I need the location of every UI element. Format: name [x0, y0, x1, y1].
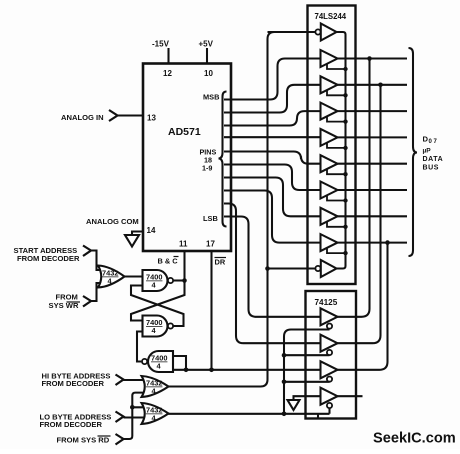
wire pin 14 to ground	[132, 232, 143, 236]
junction DR line	[209, 368, 214, 373]
pin number 14	[147, 226, 156, 235]
wire enable hook buffer 8	[327, 248, 346, 254]
wire U4a output to nand U5a	[125, 275, 143, 277]
wire LO rail to enable buffer1 74125	[284, 330, 330, 414]
label FROM SYS WR-bar	[49, 293, 81, 311]
wire data bit 2 to buffer 2	[224, 85, 321, 113]
buffer 7 of 74LS244	[321, 208, 338, 225]
input chevron HI BYTE	[116, 375, 124, 386]
svg-text:ANALOG IN: ANALOG IN	[61, 113, 104, 122]
svg-text:DATA: DATA	[423, 156, 444, 163]
wire enable hook buffer 5	[327, 169, 346, 175]
label D0-7 uP DATA BUS	[423, 135, 444, 172]
label HI BYTE ADDRESS FROM DECODER	[42, 372, 111, 389]
label FROM SYS RD-bar	[57, 436, 111, 445]
brace grouping AD571 output pins	[219, 92, 227, 227]
svg-text:AD571: AD571	[168, 126, 201, 138]
wire DR line to 74125 buffer3	[173, 369, 321, 371]
IC U3 74125 quad buffer body	[306, 291, 357, 419]
svg-text:-15V: -15V	[152, 40, 170, 49]
junction out3 bus	[385, 240, 390, 245]
wire sys WR to OR gate U4a	[91, 283, 101, 301]
wire data bit 8 to buffer 8	[224, 191, 321, 243]
buffer 8 of 74LS244	[321, 234, 338, 251]
wire data bit 5 to buffer 5	[224, 152, 321, 164]
wire bus row output buffer 4	[338, 136, 408, 138]
junction enable2 74125	[282, 353, 287, 358]
pin number 11	[179, 240, 188, 249]
junction enable hook 7	[343, 225, 347, 229]
junction out2 bus	[378, 83, 383, 88]
label B & C-bar	[158, 257, 179, 266]
junction HI-rail to 2G	[265, 266, 270, 271]
label MSB	[203, 93, 219, 102]
buffer 1 of 74125	[321, 308, 338, 325]
wire LO BYTE to U4c	[124, 416, 144, 418]
input chevron ANALOG IN	[109, 110, 118, 121]
wire data bit 4 to buffer 4	[224, 136, 321, 138]
svg-text:11: 11	[179, 240, 188, 249]
wire enable hook buffer 3	[327, 116, 346, 122]
wire 74125 out2 to bus D5	[338, 85, 381, 343]
wire enable hook buffer 2	[327, 90, 346, 96]
wire enable buffer4 74125 to LO line	[318, 408, 330, 418]
wire pin 11 B&C line	[183, 251, 185, 281]
wire enable rail from HI gate to 1G enable bubble	[268, 31, 316, 33]
junction enable3 74125	[282, 380, 287, 385]
svg-text:LSB: LSB	[203, 214, 218, 223]
wire data bit 9 to 74125 buffer 2	[224, 204, 321, 344]
svg-text:10: 10	[204, 69, 213, 78]
junction out1 bus	[367, 56, 372, 61]
label START ADDRESS FROM DECODER	[14, 246, 80, 263]
ground symbol 74125 input	[288, 400, 300, 410]
wire bus row output buffer 7	[338, 215, 408, 217]
or-gate U4b 7432 HI	[142, 376, 169, 397]
svg-text:13: 13	[147, 114, 156, 123]
junction enable hook 1	[343, 67, 347, 71]
wire enable hook buffer 6	[327, 195, 346, 201]
wire ground to input buffer4 74125	[294, 396, 321, 400]
svg-text:14: 14	[147, 226, 156, 235]
wire enable hook buffer 7	[327, 221, 346, 227]
wire bus row output buffer 6	[338, 189, 408, 191]
label PINS 18 1-9	[200, 148, 217, 173]
junction enable hook 2	[343, 93, 347, 97]
nand-gate U5a 7400 latch top	[143, 270, 174, 291]
nand-gate U5c 7400 mirrored	[142, 351, 173, 372]
svg-text:FROM DECODER: FROM DECODER	[17, 254, 80, 263]
svg-text:ANALOG COM: ANALOG COM	[86, 217, 139, 226]
svg-text:17: 17	[206, 240, 215, 249]
wire SYS RD vertical	[124, 407, 144, 439]
label ANALOG IN	[61, 113, 104, 122]
junction U5a output B&C	[182, 278, 187, 283]
wire 74125 out1 to bus D6	[338, 59, 370, 317]
junction LO rail	[282, 412, 287, 417]
wire analog in to pin 13	[118, 114, 144, 116]
buffer 3 of 74LS244	[321, 103, 338, 120]
buffer 6 of 74LS244	[321, 182, 338, 199]
svg-text:+5V: +5V	[199, 40, 214, 49]
svg-text:BUS: BUS	[423, 165, 440, 172]
brace uP data bus	[409, 48, 418, 256]
pin number 13	[147, 114, 156, 123]
svg-text:FROM SYS RD: FROM SYS RD	[57, 436, 110, 445]
input chevron SYS RD	[116, 434, 124, 445]
wire bus row output buffer 5	[338, 163, 408, 165]
label 74LS244	[315, 12, 347, 21]
junction enable hook 5	[343, 172, 347, 176]
buffer 2 of 74LS244	[321, 76, 338, 93]
wire data bit 6 to buffer 6	[224, 165, 321, 191]
wire start address to OR gate U4a	[91, 251, 101, 271]
ground symbol analog common	[125, 235, 139, 247]
svg-text:0 7: 0 7	[429, 139, 438, 145]
label LO BYTE ADDRESS FROM DECODER	[40, 413, 112, 430]
label -15V	[152, 40, 170, 49]
wire bus row output buffer 2	[338, 84, 408, 86]
svg-text:74LS244: 74LS244	[315, 12, 347, 21]
wire 74125 out3 to bus D0	[338, 243, 388, 370]
wire U5c tied inputs bracket	[173, 356, 186, 370]
svg-text:µP: µP	[423, 148, 432, 155]
pin 12 -15V supply stub	[167, 48, 169, 64]
IC U2 74LS244 octal buffer body	[308, 6, 356, 285]
wire latch cross U5a out to U5b in	[131, 281, 185, 321]
or-gate U4a 7432	[98, 266, 125, 288]
svg-text:FROM DECODER: FROM DECODER	[40, 420, 103, 429]
wire enable buffer3 74125	[284, 381, 330, 383]
buffer 1 of 74LS244	[321, 50, 338, 67]
label AD571	[168, 126, 201, 138]
buffer 5 of 74LS244	[321, 155, 338, 172]
wire data bit MSB pin18 to buffer 1	[224, 59, 321, 100]
wire data bit 3 to buffer 3	[224, 111, 321, 125]
wire bus row output buffer 1	[338, 57, 408, 59]
label ANALOG COM	[86, 217, 139, 226]
pin 10 +5V supply stub	[206, 48, 208, 64]
label LSB	[203, 214, 218, 223]
buffer 4 of 74LS244	[321, 129, 338, 146]
input chevron START ADDRESS	[83, 246, 91, 257]
wire pin 17 DR line	[210, 251, 212, 370]
watermark SeekIC.com	[373, 431, 456, 447]
wire 74LS244 internal enable rail	[337, 32, 346, 269]
enable bubble buffer 4 of 74125	[327, 403, 332, 408]
enable bubble buffer 2 of 74125	[327, 350, 332, 355]
junction enable hook 6	[343, 198, 347, 202]
wire enable hook buffer 1	[327, 64, 346, 70]
wire U5a output to B&C node	[173, 279, 184, 281]
input chevron LO BYTE	[116, 412, 124, 423]
buffer 4 of 74125	[321, 388, 338, 405]
pin number 17	[206, 240, 215, 249]
junction U5c inputs	[184, 368, 189, 373]
or-gate U4c 7432 LO	[142, 403, 169, 424]
pin number 12	[163, 69, 172, 78]
wire SYS RD to U4b input	[132, 393, 143, 408]
wire HI BYTE to U4b	[124, 379, 144, 381]
label +5V	[199, 40, 214, 49]
wire U4b output to 74LS244 enable rail	[169, 32, 316, 387]
enable gate 1G of 74LS244	[315, 24, 336, 41]
svg-text:FROM DECODER: FROM DECODER	[42, 379, 105, 388]
svg-text:B & C: B & C	[158, 257, 179, 266]
buffer 2 of 74125	[321, 335, 338, 352]
input chevron SYS WR	[83, 296, 91, 307]
junction enable hook 4	[343, 146, 347, 150]
wire data bit LSB to 74125 buffer 1	[224, 217, 321, 317]
nand-gate U5b 7400 latch bottom	[143, 316, 174, 337]
enable bubble buffer 1 of 74125	[327, 324, 332, 329]
junction SYS RD	[130, 405, 135, 410]
IC U1 AD571 A/D converter body	[143, 64, 231, 252]
wire enable hook buffer 4	[327, 142, 346, 148]
junction enable hook 3	[343, 119, 347, 123]
label 74125	[315, 298, 338, 307]
wire U4c output LO enable line	[169, 413, 330, 415]
junction enable hook 8	[343, 251, 347, 255]
svg-text:1-9: 1-9	[202, 164, 212, 173]
label DR-bar	[215, 258, 227, 267]
wire 2G enable input	[268, 267, 316, 269]
wire latch cross U5b out to U5a in	[131, 286, 184, 327]
svg-text:74125: 74125	[315, 298, 338, 307]
wire enable buffer2 74125	[284, 354, 330, 356]
svg-text:SeekIC.com: SeekIC.com	[373, 431, 456, 447]
svg-text:12: 12	[163, 69, 172, 78]
enable bubble buffer 3 of 74125	[327, 377, 332, 382]
wire bus row output buffer 3	[338, 110, 408, 112]
pin number 10	[204, 69, 213, 78]
enable gate 2G of 74LS244	[315, 260, 336, 277]
svg-text:MSB: MSB	[203, 93, 219, 102]
wire U5c output to U5b input	[137, 332, 143, 362]
svg-text:DR: DR	[215, 258, 226, 267]
buffer 3 of 74125	[321, 361, 338, 378]
wire bus row output buffer 8	[338, 242, 408, 244]
wire data bit 7 to buffer 7	[224, 178, 321, 217]
wire 74125 out4 stub	[338, 395, 363, 397]
